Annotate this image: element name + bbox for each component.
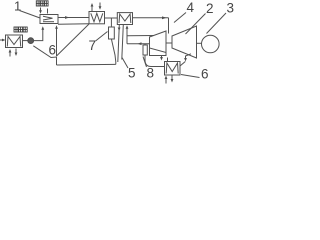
HP exhaust to condenser (150, 48, 168, 61)
label 4 (174, 0, 195, 23)
label 3 (207, 1, 235, 34)
svg-text:6: 6 (201, 67, 209, 82)
extraction arrow into C (126, 25, 129, 44)
makeup inlet arrow (0, 39, 6, 42)
svg-text:2: 2 (206, 1, 214, 16)
steam line box1 to box B with arrow (58, 16, 89, 19)
valve 7 (109, 27, 115, 39)
label 2 (186, 1, 214, 34)
svg-text:5: 5 (128, 66, 136, 81)
label 6 right (181, 67, 209, 82)
flue gas inlet arrows into box 1 (39, 8, 47, 14)
line E to pump (23, 40, 28, 42)
heat exchanger E makeup preheater (6, 35, 23, 48)
pump outlet to box 1 (34, 26, 45, 40)
pump 6 (28, 38, 34, 44)
shaft to generator (197, 42, 202, 44)
cooling water arrows below condenser (165, 76, 174, 84)
extraction line from HP turbine (127, 35, 154, 37)
hot flue gas text (36, 1, 48, 6)
label 7 (89, 32, 108, 54)
svg-text:7: 7 (89, 38, 97, 53)
LP exhaust to condenser (180, 54, 191, 66)
second downcomer from C (122, 25, 124, 60)
svg-text:3: 3 (227, 1, 235, 16)
label 8 (143, 57, 154, 81)
heat exchanger B (89, 12, 105, 24)
turbine HP stage (150, 31, 167, 53)
box 1 flue-gas heat exchanger (40, 15, 58, 24)
label 1 (14, 0, 40, 18)
trap 8 (143, 45, 147, 55)
turbine LP stage 2 (172, 26, 197, 58)
heat exchanger C (117, 13, 132, 25)
svg-text:4: 4 (187, 0, 195, 15)
line B to C (105, 17, 118, 19)
flue duct box1 bottom to box B corner (58, 23, 89, 25)
downcomer from C (118, 25, 121, 63)
main steam line to turbine (133, 16, 169, 33)
svg-text:1: 1 (14, 0, 21, 14)
svg-text:8: 8 (147, 66, 155, 81)
arrows above B (91, 3, 102, 12)
valve 7 drain (111, 39, 115, 64)
generator 3 (202, 35, 220, 53)
trap 8 stub (144, 44, 146, 45)
valve 7 stub (110, 18, 112, 27)
condenser 5 (165, 62, 181, 76)
feed diagonal to box B corner (57, 24, 90, 56)
shaft (166, 42, 172, 44)
condensate bottom line (57, 63, 116, 66)
second extraction line with arrow (127, 42, 150, 45)
label 5 (122, 58, 136, 81)
trap 8 drain to condenser (145, 55, 165, 67)
riser to box 1 right with arrow (55, 25, 58, 56)
makeup water text (14, 27, 27, 32)
svg-text:6: 6 (49, 43, 57, 58)
arrows below E (9, 49, 18, 57)
